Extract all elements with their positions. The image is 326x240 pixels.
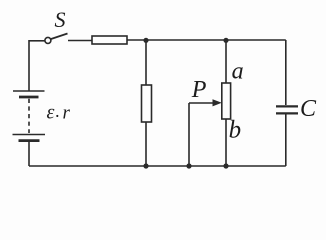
svg-text:C: C (300, 96, 317, 122)
svg-text:P: P (191, 77, 207, 103)
svg-text:b: b (229, 117, 242, 144)
svg-text:a: a (232, 58, 244, 84)
svg-text:r: r (63, 102, 71, 123)
svg-text:S: S (55, 7, 66, 32)
svg-text:ε: ε (47, 101, 55, 123)
svg-text:.: . (56, 101, 61, 121)
